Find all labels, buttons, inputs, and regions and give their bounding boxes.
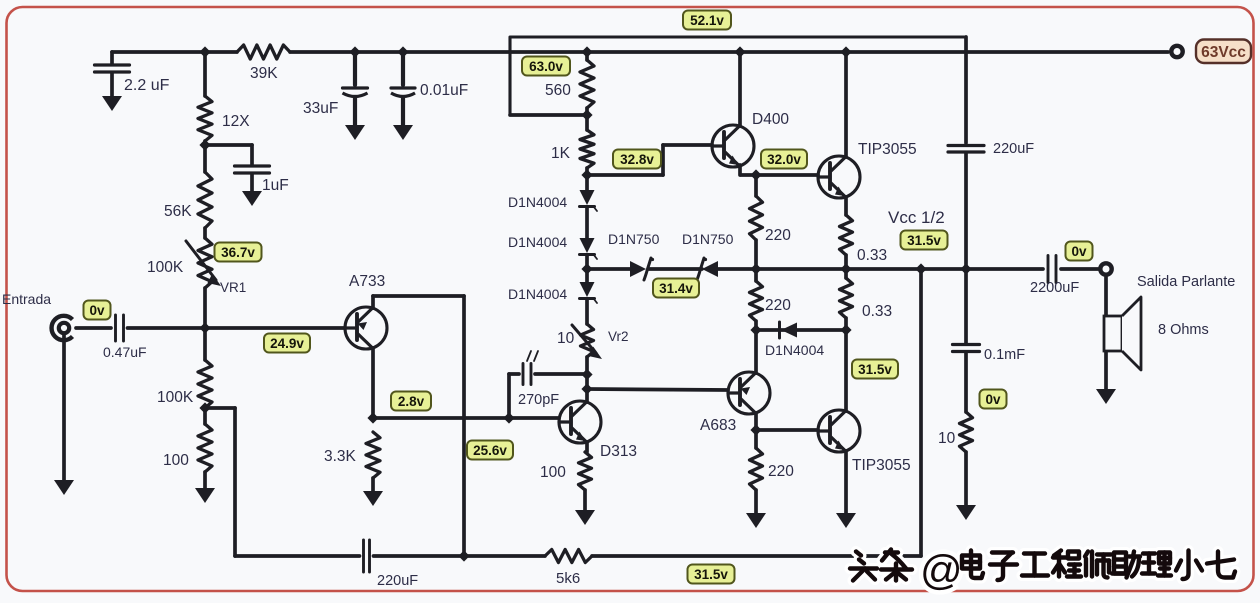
- svg-text:32.0v: 32.0v: [767, 152, 801, 167]
- svg-text:0.47uF: 0.47uF: [103, 344, 147, 360]
- svg-text:10: 10: [938, 430, 956, 447]
- svg-text:D1N750: D1N750: [608, 231, 660, 247]
- svg-text:63.0v: 63.0v: [529, 59, 563, 74]
- svg-text:0v: 0v: [89, 303, 105, 318]
- svg-text:D1N4004: D1N4004: [508, 234, 567, 250]
- svg-text:220uF: 220uF: [377, 573, 418, 589]
- svg-text:@: @: [920, 547, 963, 594]
- svg-text:33uF: 33uF: [303, 100, 338, 117]
- svg-text:63Vcc: 63Vcc: [1201, 44, 1246, 61]
- svg-text:Vcc 1/2: Vcc 1/2: [888, 208, 945, 227]
- svg-text:Vr2: Vr2: [608, 329, 629, 344]
- svg-text:31.5v: 31.5v: [907, 233, 941, 248]
- svg-text:TIP3055: TIP3055: [852, 457, 911, 474]
- svg-text:D1N750: D1N750: [682, 231, 734, 247]
- svg-text:D400: D400: [752, 111, 789, 128]
- svg-text:1K: 1K: [551, 145, 571, 162]
- svg-text:24.9v: 24.9v: [270, 336, 304, 351]
- svg-text:32.8v: 32.8v: [620, 152, 654, 167]
- svg-text:0v: 0v: [1071, 244, 1087, 259]
- svg-text:A683: A683: [700, 417, 736, 434]
- svg-text:D1N4004: D1N4004: [508, 286, 567, 302]
- svg-text:100K: 100K: [147, 259, 184, 276]
- svg-text:0v: 0v: [985, 392, 1001, 407]
- svg-text:56K: 56K: [164, 203, 192, 220]
- svg-text:100: 100: [540, 464, 566, 481]
- svg-text:25.6v: 25.6v: [473, 443, 507, 458]
- svg-text:2.2 uF: 2.2 uF: [124, 77, 170, 94]
- svg-text:2200uF: 2200uF: [1030, 280, 1079, 296]
- svg-text:2.8v: 2.8v: [398, 394, 425, 409]
- svg-text:5k6: 5k6: [556, 570, 580, 587]
- svg-text:220: 220: [765, 227, 791, 244]
- svg-text:36.7v: 36.7v: [221, 245, 255, 260]
- svg-text:Entrada: Entrada: [2, 291, 51, 307]
- svg-text:220: 220: [765, 297, 791, 314]
- svg-text:D1N4004: D1N4004: [508, 194, 567, 210]
- svg-text:270pF: 270pF: [518, 392, 559, 408]
- svg-text:31.4v: 31.4v: [659, 281, 693, 296]
- svg-text:31.5v: 31.5v: [858, 362, 892, 377]
- svg-text:D313: D313: [600, 443, 637, 460]
- svg-text:0.01uF: 0.01uF: [420, 82, 468, 99]
- svg-text:220uF: 220uF: [993, 141, 1034, 157]
- svg-text:52.1v: 52.1v: [690, 13, 724, 28]
- svg-text:100: 100: [163, 452, 189, 469]
- svg-text:560: 560: [545, 82, 571, 99]
- svg-text:TIP3055: TIP3055: [858, 141, 917, 158]
- svg-text:39K: 39K: [250, 65, 278, 82]
- svg-text:31.5v: 31.5v: [694, 567, 728, 582]
- svg-text:0.33: 0.33: [862, 303, 892, 320]
- svg-text:0.33: 0.33: [857, 247, 887, 264]
- svg-text:1uF: 1uF: [262, 177, 289, 194]
- svg-text:0.1mF: 0.1mF: [984, 347, 1025, 363]
- svg-text:100K: 100K: [157, 389, 194, 406]
- svg-text:VR1: VR1: [220, 280, 246, 295]
- svg-text:A733: A733: [349, 273, 385, 290]
- svg-text:10: 10: [557, 330, 575, 347]
- svg-text:Salida Parlante: Salida Parlante: [1137, 274, 1235, 290]
- svg-text:D1N4004: D1N4004: [765, 342, 824, 358]
- svg-text:3.3K: 3.3K: [324, 448, 357, 465]
- svg-text:12X: 12X: [222, 113, 250, 130]
- svg-text:220: 220: [768, 463, 794, 480]
- svg-text:8 Ohms: 8 Ohms: [1158, 322, 1209, 338]
